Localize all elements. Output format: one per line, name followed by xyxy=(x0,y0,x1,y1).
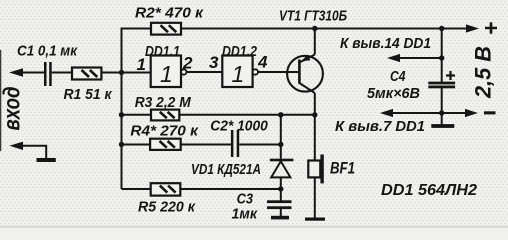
svg-text:R3 2,2 М: R3 2,2 М xyxy=(135,94,191,111)
svg-text:1: 1 xyxy=(232,61,245,87)
svg-text:1: 1 xyxy=(137,55,146,74)
svg-text:R5 220 к: R5 220 к xyxy=(138,199,196,216)
svg-text:К выв.7 DD1: К выв.7 DD1 xyxy=(335,119,425,135)
svg-text:C1 0,1 мк: C1 0,1 мк xyxy=(17,43,78,60)
svg-text:2,5 В: 2,5 В xyxy=(470,46,495,99)
svg-text:вход: вход xyxy=(0,87,24,131)
svg-text:2: 2 xyxy=(182,53,193,72)
svg-text:C4: C4 xyxy=(390,69,406,85)
svg-text:К выв.14 DD1: К выв.14 DD1 xyxy=(340,36,431,52)
svg-text:DD1 564ЛН2: DD1 564ЛН2 xyxy=(381,182,477,199)
svg-text:C2* 1000: C2* 1000 xyxy=(210,119,267,135)
svg-text:1: 1 xyxy=(160,61,173,87)
svg-text:3: 3 xyxy=(209,53,219,72)
svg-text:C3: C3 xyxy=(237,192,254,208)
svg-text:5мк×6В: 5мк×6В xyxy=(367,86,420,102)
svg-text:DD1.1: DD1.1 xyxy=(145,44,180,60)
svg-text:BF1: BF1 xyxy=(330,160,355,178)
svg-text:R4* 270 к: R4* 270 к xyxy=(130,123,199,140)
svg-text:DD1.2: DD1.2 xyxy=(222,44,257,60)
svg-text:VT1 ГТ310Б: VT1 ГТ310Б xyxy=(279,8,347,25)
svg-text:R1 51 к: R1 51 к xyxy=(64,86,113,103)
svg-text:1мк: 1мк xyxy=(232,207,258,223)
svg-text:4: 4 xyxy=(257,53,268,72)
svg-text:VD1 КД521А: VD1 КД521А xyxy=(191,161,261,178)
svg-text:R2* 470 к: R2* 470 к xyxy=(135,5,204,22)
